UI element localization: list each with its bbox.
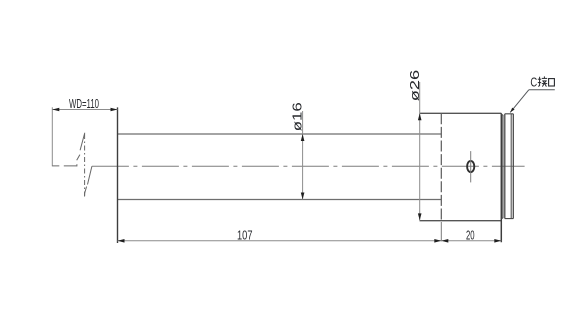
svg-text:107: 107 [237, 228, 253, 243]
svg-text:WD=110: WD=110 [69, 96, 99, 111]
svg-text:20: 20 [466, 228, 475, 243]
svg-text:C: C [530, 75, 537, 89]
svg-text:ø26: ø26 [407, 70, 422, 102]
svg-text:ø16: ø16 [290, 102, 305, 131]
